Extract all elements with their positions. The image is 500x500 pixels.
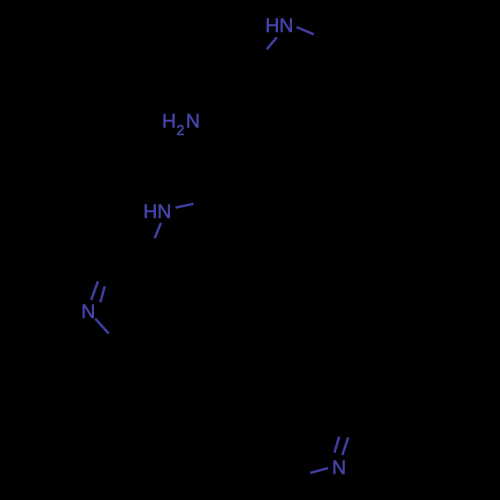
indole N-H label (top)	[265, 15, 293, 37]
svg-text:H: H	[265, 15, 279, 37]
svg-text:N: N	[81, 301, 95, 323]
bond stub N1-C2 (right of top HN)	[297, 27, 314, 34]
svg-text:H: H	[162, 111, 176, 133]
bond stub N5-C (left of bottom-right N)	[310, 468, 328, 473]
secondary amine HN label (middle)	[143, 201, 171, 223]
svg-text:N: N	[157, 201, 171, 223]
bond stub N1-C7a (down-left of top HN)	[267, 37, 277, 49]
pyridine C=N double bond inner line (up from left N)	[100, 286, 105, 302]
svg-text:N: N	[332, 457, 346, 479]
pyridine C=N double bond right line (up from bottom-right N)	[342, 437, 348, 455]
svg-text:2: 2	[176, 123, 184, 139]
svg-text:N: N	[279, 15, 293, 37]
svg-text:N: N	[186, 111, 200, 133]
bond stub N3-CH2 (right-up of middle HN)	[175, 204, 193, 208]
pyridine C=N double bond left line (up from bottom-right N)	[334, 437, 339, 453]
bond stub N4-C (down-right of left N)	[95, 319, 108, 334]
primary amine H2N label	[162, 111, 200, 139]
bond stub N3-CH2 (down of middle HN)	[155, 223, 161, 238]
pyridine C=N double bond outer line (up from left N)	[91, 281, 98, 300]
svg-text:H: H	[143, 201, 157, 223]
